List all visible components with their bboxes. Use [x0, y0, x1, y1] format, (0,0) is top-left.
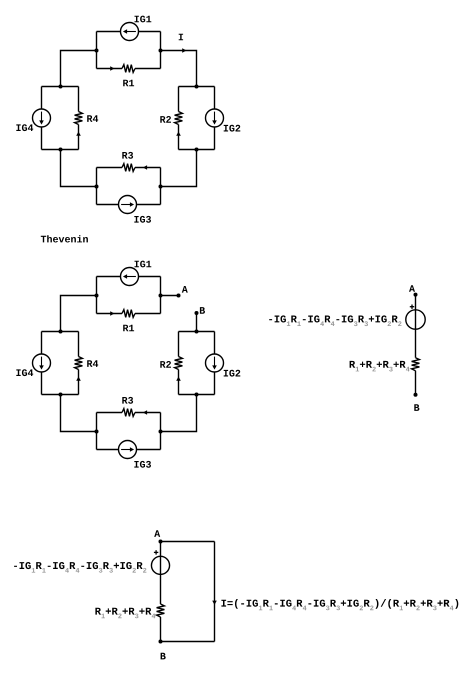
node: left pair top junction: [59, 85, 63, 89]
label R2: [160, 116, 171, 123]
current source IG2: [206, 87, 224, 150]
wire right-pair bottom edge: [179, 394, 215, 396]
value label Vth = -IG1R1-IG4R4-IG3R3+IG2R2: [14, 562, 146, 573]
resistor R1: [97, 310, 161, 318]
label IG2: [224, 370, 241, 377]
wire right branch with current I arrow: [212, 542, 217, 642]
current source IG4: [33, 332, 51, 395]
resistor R2: [175, 87, 183, 150]
label IG1: [135, 16, 152, 23]
wire top-pair left node to left-pair top node: [61, 51, 97, 87]
wire stub terminal B to right pair: [196, 313, 198, 332]
wire bottom-pair right edge: [160, 168, 162, 205]
node: top pair right junction: [159, 49, 163, 53]
wire right-pair bottom node to bottom-pair right node: [161, 150, 197, 187]
label R1: [123, 325, 134, 332]
resistor R2: [175, 332, 183, 395]
node: right pair top junction: [195, 330, 199, 334]
wire bottom-pair left edge: [96, 168, 98, 205]
label IG3: [134, 216, 151, 223]
node: top pair right junction: [159, 294, 163, 298]
node: bottom pair left junction: [95, 185, 99, 189]
wire bottom-pair right edge: [160, 413, 162, 450]
node: left pair top junction: [59, 330, 63, 334]
label R4: [87, 115, 98, 122]
label IG4: [16, 369, 33, 376]
wire left branch A to B: [160, 542, 162, 642]
current source IG3: [97, 441, 161, 459]
wire top-pair left node to left-pair top node: [61, 296, 97, 332]
voltage source Vth: [151, 556, 169, 574]
node: right pair bottom junction: [195, 393, 199, 397]
label A: [409, 285, 415, 292]
node: bottom pair right junction: [159, 430, 163, 434]
wire left-pair bottom node to bottom-pair left node: [61, 150, 97, 187]
label IG1: [135, 261, 152, 268]
wire left-pair bottom edge: [42, 149, 79, 151]
label R2: [160, 361, 171, 368]
label A: [182, 286, 188, 293]
wire right-pair bottom edge: [179, 149, 215, 151]
voltage source Vth: [406, 310, 425, 329]
wire with current I: top-pair right node to right-pair top node: [161, 48, 197, 86]
label I: [179, 34, 183, 41]
label B: [200, 307, 205, 314]
resistor Rth: [157, 604, 165, 617]
resistor R3: [97, 164, 161, 172]
resistor R4: [75, 87, 83, 150]
resistor R1: [97, 65, 161, 73]
wire left-pair top edge: [42, 331, 79, 333]
wire left-pair top edge: [42, 86, 79, 88]
label B: [414, 404, 419, 411]
terminal B: [195, 311, 199, 315]
terminal A: [159, 540, 163, 544]
label R1: [123, 80, 134, 87]
terminal A: [414, 293, 418, 297]
node: bottom pair right junction: [159, 185, 163, 189]
label IG2: [224, 125, 241, 132]
current source IG4: [33, 87, 51, 150]
label equation I=(...)/(...): [221, 599, 458, 610]
wire top-pair right edge: [160, 32, 162, 69]
current source IG1: [97, 268, 161, 286]
resistor Rth: [412, 358, 420, 371]
node: right pair bottom junction: [195, 148, 199, 152]
wire top-pair left edge: [96, 32, 98, 69]
wire right-pair top edge: [179, 86, 215, 88]
wire bottom-pair left edge: [96, 413, 98, 450]
label IG4: [16, 124, 33, 131]
label R3: [122, 397, 133, 404]
label IG3: [134, 461, 151, 468]
terminal B: [159, 640, 163, 644]
label A: [154, 530, 160, 537]
node: top pair left junction: [95, 49, 99, 53]
resistor R4: [75, 332, 83, 395]
wire bottom: right branch to B: [161, 641, 215, 643]
wire top-pair right edge: [160, 277, 162, 314]
node: left pair bottom junction: [59, 393, 63, 397]
wire top-pair left edge: [96, 277, 98, 314]
polarity + sign: [410, 305, 414, 309]
wire A to B through source and resistance: [415, 295, 417, 395]
terminal B: [414, 393, 418, 397]
node: bottom pair left junction: [95, 430, 99, 434]
node: top pair left junction: [95, 294, 99, 298]
section title Thevenin: [41, 235, 88, 242]
label R3: [122, 152, 133, 159]
current source IG1: [97, 23, 161, 41]
wire top: A to right branch: [161, 541, 215, 543]
current source IG3: [97, 196, 161, 214]
polarity + sign: [154, 550, 158, 554]
value label Rth = R1+R2+R3+R4: [95, 608, 155, 619]
current source IG2: [206, 332, 224, 395]
wire right-pair bottom node to bottom-pair right node: [161, 395, 197, 432]
terminal A: [177, 294, 181, 298]
label R4: [87, 360, 98, 367]
label B: [161, 653, 166, 660]
resistor R3: [97, 409, 161, 417]
wire left-pair bottom node to bottom-pair left node: [61, 395, 97, 432]
value label Rth = R1+R2+R3+R4: [350, 361, 410, 372]
value label Vth = -IG1R1-IG4R4-IG3R3+IG2R2: [269, 315, 401, 326]
wire stub to terminal A: [161, 295, 179, 297]
node: left pair bottom junction: [59, 148, 63, 152]
wire left-pair bottom edge: [42, 394, 79, 396]
node: right pair top junction: [195, 85, 199, 89]
wire right-pair top edge: [179, 331, 215, 333]
